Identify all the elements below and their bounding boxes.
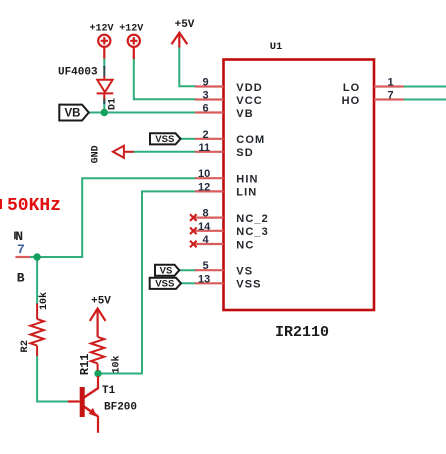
svg-text:8: 8 — [203, 208, 209, 220]
svg-text:HIN: HIN — [236, 174, 258, 186]
wire R2 bottom to transistor base — [37, 356, 68, 402]
svg-text:VSS: VSS — [236, 279, 261, 291]
wire VB net — [89, 112, 196, 114]
pin 1 LO — [374, 85, 404, 87]
svg-text:NC: NC — [236, 239, 254, 251]
svg-text:SD: SD — [236, 147, 253, 159]
svg-text:+5V: +5V — [175, 19, 195, 31]
svg-text:5: 5 — [203, 260, 209, 272]
svg-text:1: 1 — [388, 77, 394, 89]
svg-text:VS: VS — [160, 266, 173, 277]
pin 10 HIN — [195, 177, 224, 179]
svg-text:R11: R11 — [78, 353, 92, 375]
svg-text:2: 2 — [203, 129, 209, 141]
svg-text:10: 10 — [198, 168, 210, 180]
svg-text:+12V: +12V — [119, 24, 143, 35]
wire GND to SD pin 11 — [133, 151, 196, 153]
no-connect X pin 8 — [190, 214, 197, 221]
junction node HIN/7 — [33, 253, 40, 260]
wire +5V to VDD pin 9 — [179, 47, 196, 87]
power symbol +5V top — [172, 33, 188, 48]
wire +12V to VCC pin 3 — [134, 58, 196, 99]
svg-text:7: 7 — [17, 242, 25, 257]
pin 7 HO — [374, 98, 404, 100]
wire HIN net — [30, 178, 197, 257]
svg-text:IR2110: IR2110 — [275, 324, 329, 341]
svg-text:NC_2: NC_2 — [236, 213, 269, 225]
diode D1 UF4003 — [97, 76, 114, 100]
svg-text:VB: VB — [65, 108, 81, 120]
global label VSS (COM) — [150, 133, 181, 144]
svg-text:VS: VS — [236, 266, 253, 278]
svg-text:D1: D1 — [108, 98, 119, 110]
svg-text:9: 9 — [203, 77, 209, 89]
wire +12V to diode anode — [103, 58, 105, 68]
pin 2 COM — [195, 138, 224, 140]
wire VS to pin 5 — [179, 269, 196, 271]
pin 8 NC_2 — [194, 217, 224, 219]
wire diode cathode overlap dark — [103, 99, 105, 105]
svg-text:NC_3: NC_3 — [236, 226, 269, 238]
svg-text:BF200: BF200 — [104, 401, 137, 413]
power symbol +12V PWR2 — [128, 35, 140, 59]
wire diode cathode to VB node — [103, 97, 105, 113]
wire diode anode overlap dark — [103, 66, 105, 77]
svg-text:7: 7 — [388, 90, 394, 102]
svg-text:VDD: VDD — [236, 82, 263, 94]
svg-text:4: 4 — [203, 234, 210, 246]
svg-text:11: 11 — [199, 142, 211, 154]
power symbol +12V PWR1 — [98, 35, 110, 59]
svg-text:VSS: VSS — [155, 279, 174, 290]
svg-text:U1: U1 — [270, 41, 283, 53]
wire node 7 to R2 top — [36, 257, 38, 305]
svg-text:14: 14 — [198, 221, 211, 233]
svg-text:HO: HO — [342, 95, 361, 107]
svg-text:T1: T1 — [102, 385, 116, 397]
global label VB — [59, 105, 89, 121]
no-connect X pin 14 — [190, 228, 197, 235]
power symbol +5V bottom — [90, 309, 106, 337]
svg-text:50KHz: 50KHz — [7, 196, 61, 216]
pin 14 NC_3 — [194, 230, 224, 232]
junction node VB — [101, 109, 108, 116]
global label VS (pin 5) — [155, 265, 179, 276]
svg-text:+12V: +12V — [89, 24, 113, 35]
transistor T1 emitter arrow — [89, 408, 97, 417]
svg-text:COM: COM — [236, 134, 265, 146]
pin 13 VSS — [195, 282, 224, 284]
svg-text:VCC: VCC — [236, 95, 263, 107]
svg-text:3: 3 — [203, 90, 209, 102]
transistor T1 base bar — [80, 387, 85, 417]
wire LIN net — [98, 191, 196, 373]
svg-text:UF4003: UF4003 — [58, 67, 98, 79]
svg-text:10k: 10k — [38, 292, 50, 310]
global label VSS (pin 13) — [150, 278, 181, 289]
svg-text:VB: VB — [236, 108, 253, 120]
resistor R11 — [91, 337, 104, 371]
pin 11 SD — [195, 151, 224, 153]
no-connect X pin 4 — [190, 241, 197, 248]
clipped pin stub 7 (left edge) — [15, 256, 30, 258]
pin 9 VDD — [195, 85, 224, 87]
pin 12 LIN — [195, 190, 224, 192]
transistor base pin — [68, 400, 80, 402]
junction node LIN/collector — [94, 370, 101, 377]
power symbol GND — [113, 146, 134, 158]
wire HO output — [403, 99, 446, 101]
IC U1 body — [224, 60, 375, 311]
pin 3 VCC — [195, 98, 224, 100]
clipped label fragment before N — [14, 232, 16, 240]
pin 5 VS — [195, 269, 224, 271]
pin 4 NC — [194, 243, 224, 245]
wire VSS to COM pin 2 — [181, 138, 197, 140]
wire VSS to pin 13 — [181, 282, 196, 284]
pin 6 VB — [195, 111, 224, 113]
svg-text:GND: GND — [91, 145, 102, 163]
svg-text:6: 6 — [203, 103, 209, 115]
svg-text:LO: LO — [343, 82, 360, 94]
transistor T1 BF200 — [84, 376, 99, 433]
svg-text:13: 13 — [198, 273, 210, 285]
svg-text:B: B — [17, 271, 25, 286]
svg-text:12: 12 — [198, 181, 210, 193]
svg-text:R2: R2 — [19, 340, 31, 353]
clipped label fragment colon — [0, 199, 2, 209]
svg-text:VSS: VSS — [155, 134, 174, 145]
resistor R2 — [30, 304, 43, 357]
wire LO output — [403, 86, 446, 88]
svg-text:+5V: +5V — [91, 296, 111, 308]
svg-text:LIN: LIN — [236, 187, 257, 199]
svg-text:10k: 10k — [110, 355, 122, 373]
